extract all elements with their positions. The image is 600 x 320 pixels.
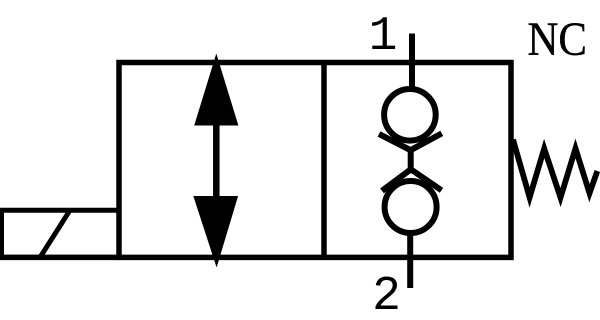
flow arrow head up [194, 54, 238, 126]
check ball top circle [384, 89, 436, 141]
valve seat top (V) [379, 133, 442, 150]
port line 1 [409, 34, 415, 93]
solenoid actuator box [2, 210, 120, 257]
port line 2 [407, 235, 413, 288]
svg-text:1: 1 [369, 10, 398, 64]
return spring [513, 140, 597, 198]
flow arrow head down [193, 196, 238, 268]
valve body (2-position envelope) [119, 63, 511, 258]
svg-text:NC: NC [528, 14, 588, 66]
valve seat bottom (inverted V) [382, 169, 442, 191]
wire: bottom rail from solenoid to valve bottom [0, 255, 119, 261]
valve position divider [321, 63, 327, 258]
solenoid diagonal stroke [40, 210, 70, 257]
flow arrow shaft [213, 122, 220, 200]
svg-text:2: 2 [372, 270, 401, 320]
seat connector line [408, 148, 414, 171]
check ball bottom circle [385, 181, 437, 233]
